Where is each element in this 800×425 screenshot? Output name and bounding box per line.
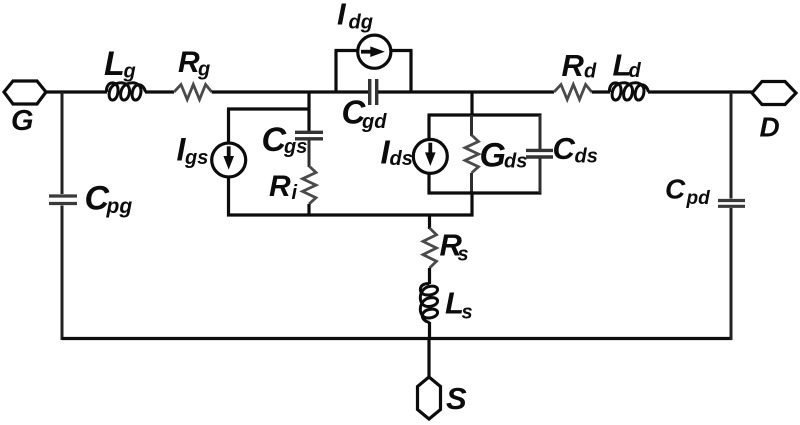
capacitor Cgs	[295, 132, 323, 139]
current source Idg arrow	[361, 46, 385, 57]
wire Ids box bottom	[428, 191, 542, 194]
svg-text:s: s	[458, 244, 469, 266]
current source Idg bridge right vertical	[409, 51, 412, 93]
wire Rd to Ld	[592, 90, 610, 93]
svg-text:C: C	[665, 173, 686, 204]
wire Ids box right vertical upper	[539, 115, 542, 150]
svg-text:gd: gd	[361, 111, 387, 133]
svg-text:R: R	[178, 46, 200, 79]
wire Rs stub from inner rail	[428, 215, 431, 229]
capacitor Cpg	[49, 196, 77, 204]
wire Gds vertical lower	[470, 173, 473, 193]
svg-text:s: s	[462, 302, 473, 324]
capacitor Cgd	[370, 79, 377, 105]
current source Ids arrow	[425, 143, 436, 166]
svg-text:S: S	[446, 381, 467, 416]
wire Ids branch vertical from gate line	[470, 92, 473, 117]
inductor Ld	[609, 83, 648, 100]
wire Ri to inner rail	[307, 204, 310, 217]
resistor Rd	[554, 85, 592, 100]
wire Idg bridge top right	[391, 49, 413, 52]
svg-text:g: g	[123, 61, 136, 83]
svg-text:ds: ds	[575, 146, 598, 168]
wire Rg to Cgd left plate	[212, 90, 368, 93]
svg-text:d: d	[584, 61, 597, 83]
current source Ids circle	[413, 139, 447, 173]
svg-text:g: g	[197, 59, 210, 81]
wire Cgs to Ri	[308, 140, 311, 168]
resistor Rs	[423, 228, 437, 268]
inductor Ls	[420, 283, 437, 322]
current source Igs arrow	[223, 146, 234, 169]
wire Igs box top horizontal	[227, 107, 311, 110]
svg-text:ds: ds	[504, 151, 527, 173]
current source Igs circle	[212, 143, 246, 177]
wire Rs to Ls	[428, 268, 431, 284]
capacitor Cpd	[718, 201, 745, 207]
svg-text:R: R	[269, 170, 291, 203]
svg-text:ds: ds	[390, 148, 413, 170]
inductor Lg	[106, 83, 145, 100]
capacitor Cds	[526, 150, 553, 157]
wire bottom rail	[62, 337, 732, 340]
wire drain node vertical (x=731.5) upper	[730, 92, 733, 199]
wire Ids box right vertical lower	[539, 158, 542, 194]
port D hexagon	[752, 82, 796, 105]
wire Igs left vertical lower	[227, 177, 230, 216]
wire Cpg to bottom rail	[61, 206, 64, 341]
svg-text:I: I	[337, 0, 347, 32]
svg-text:i: i	[292, 182, 298, 204]
wire Idg bridge top left	[335, 49, 357, 52]
resistor Rg	[174, 85, 212, 100]
svg-text:pd: pd	[686, 188, 711, 209]
wire gate node vertical (x=62) upper	[61, 92, 64, 194]
svg-text:L: L	[104, 45, 125, 83]
svg-text:G: G	[11, 105, 34, 137]
wire gate line: G to Lg	[46, 90, 107, 93]
resistor Ri	[303, 166, 317, 204]
svg-text:C: C	[553, 131, 576, 166]
wire Cpd to bottom rail	[730, 208, 733, 340]
port S hexagon	[418, 377, 441, 419]
wire Cgs branch vertical from gate line	[307, 92, 310, 132]
wire Ids box top	[428, 113, 542, 116]
svg-text:gs: gs	[184, 147, 208, 169]
svg-text:d: d	[629, 60, 642, 82]
svg-text:C: C	[262, 121, 287, 159]
wire Ids box left vertical lower	[427, 174, 430, 195]
wire Ld to port D	[648, 90, 753, 93]
svg-text:dg: dg	[349, 12, 373, 34]
svg-text:gs: gs	[283, 136, 307, 158]
wire Gds vertical upper	[470, 115, 473, 136]
wire Igs left vertical upper	[227, 109, 230, 143]
wire Cgd right plate to Rd	[378, 90, 554, 93]
wire Lg to Rg	[145, 90, 174, 93]
svg-text:R: R	[562, 48, 585, 83]
wire source stub below rail	[427, 339, 430, 379]
resistor Gds	[465, 135, 479, 173]
svg-text:G: G	[480, 137, 506, 175]
current source Idg circle	[358, 35, 391, 68]
wire Ls to bottom rail	[428, 322, 431, 340]
wire inner bottom rail	[227, 213, 474, 216]
current source Idg bridge left vertical	[334, 51, 337, 93]
port G hexagon	[4, 81, 46, 104]
wire Ids branch to inner rail	[470, 193, 473, 217]
svg-text:pg: pg	[106, 195, 133, 218]
svg-text:D: D	[760, 112, 780, 143]
wire Ids box left vertical upper	[427, 115, 430, 140]
